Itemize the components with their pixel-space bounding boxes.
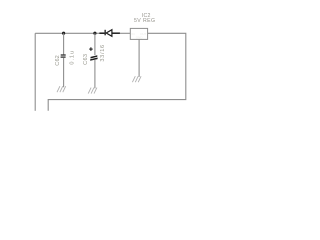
svg-text:C63: C63 bbox=[83, 54, 89, 65]
wire: C63 upper lead bbox=[94, 33, 96, 55]
svg-text:0.1u: 0.1u bbox=[70, 50, 76, 65]
ground under C62 bbox=[57, 86, 66, 92]
svg-text:GND: GND bbox=[136, 36, 144, 40]
wire: IC2 ground pin drop bbox=[138, 39, 140, 76]
wire: C63 lower lead bbox=[94, 60, 96, 88]
wire: C62 upper lead bbox=[63, 33, 65, 54]
ground under IC2 bbox=[132, 76, 141, 82]
capacitor C63 bottom plate bbox=[90, 58, 97, 61]
wire: top horizontal rail bbox=[35, 32, 104, 34]
node junction at C63 tap bbox=[93, 32, 96, 35]
ground under C63 bbox=[88, 88, 97, 94]
diode anode-side pin stub bbox=[99, 32, 104, 34]
diode triangle bbox=[106, 30, 112, 37]
diode right pin stub bbox=[112, 32, 120, 34]
node junction at C62 tap bbox=[62, 32, 65, 35]
capacitor C62 top plate bbox=[61, 54, 66, 55]
wire: left vertical drop bbox=[34, 33, 36, 111]
wire: diode to IC2 input bbox=[120, 32, 130, 34]
polarity plus sign of C63 bbox=[89, 47, 93, 51]
svg-text:5V REG: 5V REG bbox=[134, 18, 155, 24]
svg-text:IN: IN bbox=[132, 32, 135, 36]
diode cathode bar bbox=[105, 30, 106, 36]
svg-text:C62: C62 bbox=[55, 55, 61, 66]
wire: C62 lower lead bbox=[63, 58, 65, 87]
svg-text:33/16: 33/16 bbox=[100, 44, 106, 62]
capacitor C63 top plate bbox=[91, 55, 98, 58]
wire: IC2 output routed right and around bottom bbox=[48, 33, 186, 111]
op-amp / regulator IC2 body bbox=[130, 28, 147, 39]
capacitor C62 bottom plate bbox=[61, 57, 66, 58]
